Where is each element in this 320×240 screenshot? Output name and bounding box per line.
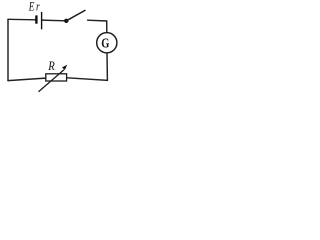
rheostat arrow shaft <box>39 70 65 92</box>
wire switch to top-right corner <box>88 20 107 32</box>
rheostat arrowhead <box>62 65 67 70</box>
battery E r : thick short plate <box>35 15 37 23</box>
svg-text:G: G <box>101 35 110 51</box>
switch lever <box>66 10 85 20</box>
switch pivot dot <box>64 19 68 23</box>
wire G to bottom-right corner <box>67 53 107 81</box>
svg-text:E: E <box>28 0 35 14</box>
battery E r : thin long plate <box>41 12 43 29</box>
galvanometer G circle <box>97 33 117 53</box>
wire bottom left segment <box>8 78 45 81</box>
wire battery to switch <box>42 19 64 22</box>
wire left vertical <box>7 19 9 80</box>
rheostat R box <box>46 74 67 81</box>
svg-text:r: r <box>36 0 40 14</box>
wire top left segment <box>8 18 36 21</box>
svg-text:R: R <box>47 59 54 73</box>
